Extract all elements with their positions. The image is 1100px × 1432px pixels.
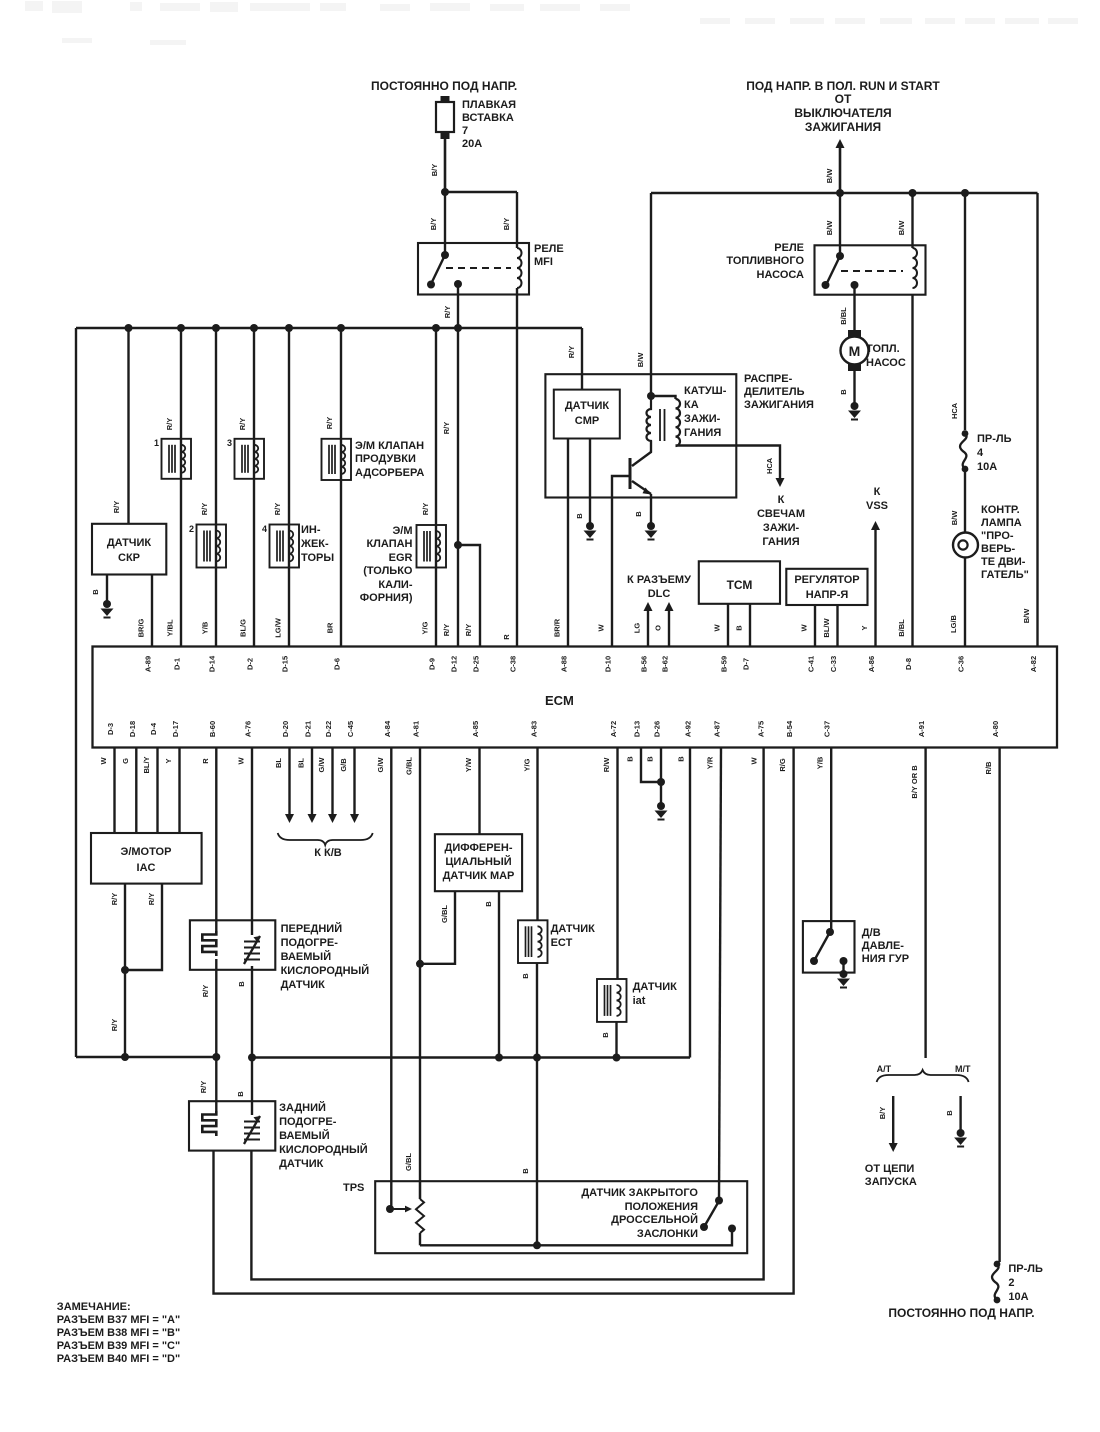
svg-text:7: 7 [462, 125, 468, 137]
svg-text:ЦИАЛЬНЫЙ: ЦИАЛЬНЫЙ [445, 855, 511, 868]
box rear heated O2 sensor [189, 1101, 275, 1150]
svg-text:W: W [713, 624, 722, 632]
svg-text:B-59: B-59 [720, 656, 729, 672]
wire ps switch to ground [842, 961, 844, 972]
scan artifacts top edge [25, 1, 1078, 45]
wire to К К/В x354 [353, 748, 355, 815]
wire ECM A-86 to VSS [874, 525, 876, 647]
svg-text:КЛАПАН: КЛАПАН [366, 538, 412, 550]
svg-text:КА: КА [684, 399, 699, 411]
svg-text:ДАТЧИК: ДАТЧИК [633, 981, 678, 993]
wire transistor base to ECM D-10 [612, 476, 630, 647]
node R/Y branch [454, 541, 462, 549]
wire lamp to ECM C-36 [964, 558, 966, 648]
bus node x181 [177, 324, 185, 332]
svg-text:ТСМ: ТСМ [727, 578, 753, 592]
bus node x254 [250, 324, 258, 332]
svg-text:ГАТЕЛЬ": ГАТЕЛЬ" [981, 569, 1029, 581]
left frame wire down [75, 328, 77, 1057]
svg-text:A-91: A-91 [917, 721, 926, 737]
svg-text:TPS: TPS [343, 1182, 364, 1194]
relay fuel pump box [815, 245, 926, 294]
svg-text:ПР-ЛЬ: ПР-ЛЬ [1008, 1263, 1043, 1275]
wire junction to R/Y rail [124, 970, 126, 1057]
box voltage regulator [786, 569, 867, 605]
svg-text:ВСТАВКА: ВСТАВКА [462, 112, 514, 124]
bus node x289 [285, 324, 293, 332]
svg-text:B/W: B/W [1022, 608, 1031, 624]
wire MAP B to ground rail [498, 891, 500, 1057]
node ground rail IAT [613, 1054, 621, 1062]
svg-text:R/Y: R/Y [201, 985, 210, 998]
wire secondary to spark plugs [676, 446, 781, 479]
ignition coil secondary [676, 399, 681, 446]
svg-text:G/BL: G/BL [404, 1153, 413, 1171]
svg-text:ДАТЧИК: ДАТЧИК [565, 400, 610, 412]
fp relay switch lower contact [822, 281, 830, 289]
wire relay MFI output to R/Y bus [457, 284, 459, 328]
wire ECM A-81 to TPS pot [419, 748, 421, 1200]
transistor collector [632, 452, 651, 466]
node MAP join on A-81 [416, 960, 424, 968]
svg-text:A-89: A-89 [144, 656, 153, 672]
svg-text:R/Y: R/Y [110, 1019, 119, 1032]
svg-text:D-14: D-14 [208, 655, 217, 672]
svg-text:B: B [521, 973, 530, 979]
svg-text:РАЗЪЕМ B39 MFI = "C": РАЗЪЕМ B39 MFI = "C" [57, 1340, 180, 1352]
svg-text:ПОДОГРЕ-: ПОДОГРЕ- [279, 1116, 337, 1128]
svg-text:C-38: C-38 [509, 656, 518, 672]
svg-text:W: W [99, 757, 108, 765]
wire injector3 to ECM D-2 [253, 328, 255, 647]
svg-text:A-85: A-85 [471, 721, 480, 737]
svg-text:ОТ: ОТ [835, 92, 852, 106]
svg-text:iat: iat [633, 995, 646, 1007]
ground fuel pump [848, 402, 861, 420]
svg-text:R/Y: R/Y [112, 501, 121, 514]
svg-text:A-75: A-75 [757, 721, 766, 737]
wire regulator to ECM C-41 [814, 605, 816, 647]
TPS switch top contact [715, 1197, 723, 1205]
svg-text:ФОРНИЯ): ФОРНИЯ) [360, 592, 413, 604]
svg-text:D-20: D-20 [281, 721, 290, 737]
svg-text:MFI: MFI [534, 256, 553, 268]
wire ECM A-85 to MAP [478, 748, 480, 835]
svg-text:BL: BL [274, 758, 283, 768]
svg-text:R/Y: R/Y [443, 306, 452, 319]
svg-text:КОНТР.: КОНТР. [981, 504, 1020, 516]
arrow to VSS [871, 521, 880, 530]
svg-text:10А: 10А [977, 461, 997, 473]
svg-text:КАЛИ-: КАЛИ- [378, 579, 412, 591]
svg-text:ЛАМПА: ЛАМПА [981, 517, 1022, 529]
wire front O2 heater to rail [215, 959, 217, 1057]
svg-text:РАЗЪЕМ B38 MFI = "B": РАЗЪЕМ B38 MFI = "B" [57, 1327, 180, 1339]
svg-text:РЕГУЛЯТОР: РЕГУЛЯТОР [794, 574, 859, 586]
svg-text:ЗАЖИГАНИЯ: ЗАЖИГАНИЯ [805, 120, 881, 134]
svg-text:R/Y: R/Y [273, 503, 282, 516]
box CKP sensor [92, 524, 166, 575]
svg-text:B: B [646, 756, 655, 762]
svg-text:ЕСТ: ЕСТ [551, 937, 573, 949]
wire down to ignition coil B+ [650, 193, 652, 396]
svg-text:4: 4 [262, 524, 267, 534]
svg-text:W: W [750, 757, 759, 765]
svg-text:ТОРЫ: ТОРЫ [301, 552, 334, 564]
relay MFI switch lower contact [427, 281, 435, 289]
svg-text:R/Y: R/Y [567, 346, 576, 359]
wire rail to rear O2 heater [215, 1057, 217, 1111]
wire ECM D-17 to IAC [178, 748, 180, 834]
wire CKP to ground [106, 575, 108, 603]
wire fuse to junction [444, 139, 447, 192]
svg-text:R/Y: R/Y [421, 503, 430, 516]
svg-text:B-62: B-62 [661, 656, 670, 672]
svg-text:R/G: R/G [778, 758, 787, 772]
fp relay coil [913, 248, 918, 288]
svg-text:ПОДОГРЕ-: ПОДОГРЕ- [281, 937, 339, 949]
svg-text:CMP: CMP [575, 415, 599, 427]
svg-text:1: 1 [154, 438, 159, 448]
fp relay output contact [851, 281, 859, 289]
wire junction to relay coil feed [445, 191, 517, 193]
svg-text:ДАТЧИК: ДАТЧИК [279, 1158, 324, 1170]
injector 1 coil [162, 439, 192, 479]
wire IAC second to junction [126, 884, 162, 970]
wire injector4 to ECM D-15 [288, 328, 290, 647]
svg-text:A-84: A-84 [383, 720, 392, 737]
fuse ПР-ЛЬ 4 10А [960, 430, 968, 472]
svg-text:R/Y: R/Y [165, 418, 174, 431]
node D-13/D-26 [657, 778, 665, 786]
svg-text:ECM: ECM [545, 693, 574, 708]
wire CMP to ground [589, 439, 591, 525]
svg-text:B/BL: B/BL [839, 307, 848, 325]
wire ignition feed down [839, 147, 842, 193]
svg-text:IAC: IAC [137, 862, 156, 874]
svg-text:ПР-ЛЬ: ПР-ЛЬ [977, 433, 1012, 445]
arrow from start circuit [889, 1143, 898, 1152]
wire to fuel pump relay switch [839, 193, 841, 255]
svg-text:ДРОССЕЛЬНОЙ: ДРОССЕЛЬНОЙ [611, 1213, 698, 1226]
svg-text:D-15: D-15 [281, 656, 290, 672]
box IAC motor [91, 833, 202, 884]
svg-text:G/W: G/W [376, 757, 385, 773]
svg-text:М/Т: М/Т [955, 1064, 971, 1074]
bus node x216 [212, 324, 220, 332]
svg-text:R/B: R/B [984, 761, 993, 775]
arrow down [328, 814, 337, 823]
wire ECM A-91 down [924, 748, 926, 1059]
sensor ground rail horizontal [252, 1056, 690, 1058]
svg-text:BR/R: BR/R [553, 618, 562, 637]
svg-text:ДАТЧИК MAP: ДАТЧИК MAP [443, 870, 515, 882]
svg-text:BL: BL [297, 758, 306, 768]
svg-text:Э/М КЛАПАН: Э/М КЛАПАН [355, 440, 424, 452]
brace К К/В [278, 833, 373, 845]
node coil B+ [647, 392, 655, 400]
svg-text:BL/G: BL/G [239, 619, 248, 637]
transistor base bar [629, 458, 632, 489]
svg-text:ЗАЖИГАНИЯ: ЗАЖИГАНИЯ [744, 399, 814, 411]
svg-text:Y/G: Y/G [523, 758, 532, 771]
svg-text:РЕЛЕ: РЕЛЕ [774, 242, 804, 254]
svg-text:ПРОДУВКИ: ПРОДУВКИ [355, 453, 416, 465]
R/Y bus horizontal [76, 327, 582, 330]
svg-text:B-60: B-60 [208, 721, 217, 737]
box TCM [699, 561, 780, 604]
TPS wiper arm [390, 1208, 406, 1210]
svg-text:К: К [778, 494, 785, 506]
svg-text:A-87: A-87 [713, 721, 722, 737]
svg-text:D-4: D-4 [149, 722, 158, 735]
svg-text:A-88: A-88 [560, 656, 569, 672]
wire right feed to ECM A-82 [1036, 193, 1038, 647]
box power steering pressure switch [803, 921, 855, 973]
wire ECM A-76 to front O2 sensor [251, 748, 253, 936]
wire fuse4 to lamp [964, 469, 966, 533]
wire front O2 sense to ground rail [251, 966, 253, 1058]
wire to fuse 4 [964, 193, 966, 430]
svg-text:ДАТЧИК: ДАТЧИК [281, 979, 326, 991]
svg-text:КИСЛОРОДНЫЙ: КИСЛОРОДНЫЙ [279, 1143, 368, 1156]
svg-text:КАТУШ-: КАТУШ- [684, 385, 727, 397]
svg-text:G/BL: G/BL [440, 905, 449, 923]
node IAC wires join [121, 966, 129, 974]
svg-text:B/Y OR B: B/Y OR B [910, 765, 919, 799]
svg-text:НАСОСА: НАСОСА [757, 269, 805, 281]
arrow down [350, 814, 359, 823]
svg-text:ВЫКЛЮЧАТЕЛЯ: ВЫКЛЮЧАТЕЛЯ [794, 106, 891, 120]
ps switch arm [815, 932, 831, 960]
wire ECM B-62 to DLC [668, 606, 670, 647]
wire CKP to ECM A-89 [151, 575, 153, 648]
arrow to DLC 1 [644, 602, 653, 611]
arrow up to ignition switch [836, 139, 845, 148]
svg-text:ЖЕК-: ЖЕК- [300, 538, 329, 550]
svg-text:B/Y: B/Y [878, 1107, 887, 1120]
svg-text:ЗАПУСКА: ЗАПУСКА [865, 1176, 917, 1188]
svg-text:ТОПЛИВНОГО: ТОПЛИВНОГО [726, 255, 804, 267]
wire injector1 to ECM D-1 [180, 328, 182, 647]
svg-text:ПОД НАПР. В ПОЛ. RUN И START: ПОД НАПР. В ПОЛ. RUN И START [746, 79, 940, 93]
svg-text:D-22: D-22 [324, 721, 333, 737]
svg-text:ПЕРЕДНИЙ: ПЕРЕДНИЙ [281, 922, 343, 935]
svg-text:BL/Y: BL/Y [142, 756, 151, 773]
svg-text:B: B [945, 1110, 954, 1116]
svg-text:C-36: C-36 [957, 656, 966, 672]
svg-text:ТЕ ДВИ-: ТЕ ДВИ- [981, 556, 1026, 568]
svg-text:C-37: C-37 [823, 721, 832, 737]
svg-text:R/Y: R/Y [147, 893, 156, 906]
transistor emitter [632, 481, 651, 494]
ground CMP [584, 522, 597, 540]
svg-text:LG: LG [633, 623, 642, 634]
svg-text:Y/R: Y/R [706, 756, 715, 769]
svg-text:10А: 10А [1008, 1291, 1028, 1303]
svg-text:BL/W: BL/W [822, 618, 831, 638]
wire to fuel pump relay coil [911, 193, 913, 248]
svg-text:B: B [601, 1032, 610, 1038]
node rail IAC [121, 1053, 129, 1061]
wire branch to ECM D-25 [458, 545, 480, 647]
svg-text:D-2: D-2 [246, 658, 255, 670]
fuel pump motor [848, 330, 861, 337]
svg-text:B/W: B/W [825, 168, 834, 184]
svg-text:СКР: СКР [118, 552, 140, 564]
wire ECM D-13 to join [641, 748, 661, 783]
svg-text:Д/В: Д/В [862, 927, 881, 939]
svg-text:R/Y: R/Y [442, 624, 451, 637]
svg-text:ПОСТОЯННО ПОД НАПР.: ПОСТОЯННО ПОД НАПР. [371, 79, 517, 93]
wire pump to ground [853, 371, 855, 404]
relay MFI box [418, 243, 529, 295]
svg-text:Y/B: Y/B [816, 756, 825, 769]
node ECT B joins TPS common [533, 1241, 541, 1249]
svg-text:АДСОРБЕРА: АДСОРБЕРА [355, 467, 424, 479]
relay MFI dashed link [446, 267, 511, 269]
svg-text:D-12: D-12 [450, 656, 459, 672]
svg-text:G: G [121, 758, 130, 764]
svg-text:D-18: D-18 [128, 721, 137, 737]
svg-text:D-25: D-25 [472, 656, 481, 672]
front O2 heater element [202, 931, 216, 956]
svg-text:Э/МОТОР: Э/МОТОР [121, 846, 172, 858]
wire ECM D-18 to IAC [135, 748, 137, 834]
svg-text:B/W: B/W [636, 352, 645, 368]
svg-text:ДАВЛЕ-: ДАВЛЕ- [862, 940, 905, 952]
svg-text:A/T: A/T [877, 1064, 892, 1074]
fp relay switch arm [826, 256, 840, 285]
svg-text:Y: Y [860, 625, 869, 630]
svg-text:ТОПЛ.: ТОПЛ. [866, 343, 900, 355]
svg-text:VSS: VSS [866, 500, 888, 512]
svg-text:D-17: D-17 [171, 721, 180, 737]
node ground rail MAP [495, 1054, 503, 1062]
TPS switch fixed contact [728, 1225, 736, 1233]
svg-text:B: B [677, 756, 686, 762]
svg-text:B: B [839, 389, 848, 395]
svg-text:ЗАЖИ-: ЗАЖИ- [684, 413, 721, 425]
TPS potentiometer [416, 1199, 424, 1233]
svg-text:B: B [575, 513, 584, 519]
fp relay dashed link [841, 270, 903, 272]
wire ground rail up to ECM A-92 [689, 748, 691, 1058]
svg-text:BR: BR [326, 622, 335, 633]
svg-text:R/W: R/W [602, 757, 611, 773]
svg-text:R/Y: R/Y [464, 624, 473, 637]
EGR valve coil [417, 525, 447, 568]
wire to К К/В x332 [331, 748, 333, 815]
fuse ПР-ЛЬ 2 10А [992, 1261, 1000, 1304]
box TPS [375, 1181, 747, 1253]
svg-text:W: W [800, 624, 809, 632]
wire pot bottom [419, 1233, 421, 1245]
svg-text:ПОЛОЖЕНИЯ: ПОЛОЖЕНИЯ [625, 1201, 698, 1213]
svg-text:B-56: B-56 [640, 656, 649, 672]
svg-text:К: К [874, 486, 881, 498]
svg-text:20А: 20А [462, 138, 482, 150]
svg-text:ГАНИЯ: ГАНИЯ [684, 427, 721, 439]
bus node x458 [454, 324, 462, 332]
svg-text:Y: Y [164, 758, 173, 763]
wire ECM D-3 to IAC [113, 748, 115, 834]
ground M/T branch [954, 1129, 967, 1147]
node at x912 [909, 189, 917, 197]
wire TCM to ECM B-59 [727, 604, 729, 647]
svg-text:ПЛАВКАЯ: ПЛАВКАЯ [462, 99, 516, 111]
svg-text:ДАТЧИК: ДАТЧИК [551, 923, 596, 935]
svg-text:EGR: EGR [389, 552, 413, 564]
wire MAP to A-81 wire [420, 891, 455, 964]
svg-text:D-13: D-13 [633, 721, 642, 737]
svg-text:Y/BL: Y/BL [166, 619, 175, 637]
svg-text:2: 2 [1008, 1277, 1014, 1289]
svg-text:M: M [849, 343, 861, 359]
svg-text:B: B [236, 1091, 245, 1097]
svg-text:4: 4 [977, 447, 984, 459]
wire IAT B to ground rail [615, 1022, 617, 1058]
wire relay MFI coil to bus crossing [516, 288, 518, 328]
svg-text:ИН-: ИН- [301, 524, 321, 536]
rear O2 sensing element [244, 1116, 260, 1144]
R/Y rail horizontal [76, 1056, 216, 1058]
svg-text:ГАНИЯ: ГАНИЯ [762, 536, 799, 548]
rear O2 heater element [202, 1111, 216, 1136]
injector 3 coil [235, 439, 265, 479]
wire TPS common [420, 1230, 732, 1245]
fp relay switch top contact [836, 252, 844, 260]
svg-text:G/BL: G/BL [405, 757, 414, 775]
svg-text:ОТ ЦЕПИ: ОТ ЦЕПИ [865, 1163, 915, 1175]
wire fp relay coil to ECM D-8 [911, 295, 913, 647]
svg-text:Y/B: Y/B [201, 621, 210, 634]
svg-text:B: B [626, 756, 635, 762]
svg-text:D-21: D-21 [304, 721, 313, 737]
svg-text:D-6: D-6 [333, 658, 342, 670]
ground CKP [101, 600, 114, 618]
svg-text:LG/W: LG/W [274, 617, 283, 637]
node ground rail O2 [248, 1054, 256, 1062]
wire ECM A-83 to ECT [536, 748, 538, 921]
box ECM [93, 647, 1058, 748]
node: fuse output junction [441, 188, 449, 196]
svg-text:РАСПРЕ-: РАСПРЕ- [744, 373, 793, 385]
svg-text:W: W [237, 757, 246, 765]
relay MFI output contact [454, 280, 462, 288]
svg-text:D-26: D-26 [653, 721, 662, 737]
svg-text:A-86: A-86 [867, 656, 876, 672]
svg-text:2: 2 [189, 524, 194, 534]
check engine lamp [953, 533, 978, 558]
wire rear O2 heater to ECM B-54 [214, 748, 794, 1294]
svg-text:R/Y: R/Y [325, 417, 334, 430]
svg-text:(ТОЛЬКО: (ТОЛЬКО [363, 565, 413, 577]
svg-text:A-82: A-82 [1029, 656, 1038, 672]
bus node x341 [337, 324, 345, 332]
wire A/T branch [892, 1096, 894, 1143]
svg-text:B: B [735, 625, 744, 631]
bus right end down to CMP [581, 328, 583, 390]
svg-text:РАЗЪЕМ B37 MFI = "A": РАЗЪЕМ B37 MFI = "A" [57, 1314, 180, 1326]
svg-text:B: B [484, 901, 493, 907]
svg-text:КИСЛОРОДНЫЙ: КИСЛОРОДНЫЙ [281, 964, 370, 977]
svg-text:R/Y: R/Y [200, 503, 209, 516]
svg-text:НСА: НСА [765, 457, 774, 474]
arrow to spark plugs [776, 478, 785, 487]
wire horizontal ignition bus [651, 192, 1038, 194]
bus node x436 [432, 324, 440, 332]
